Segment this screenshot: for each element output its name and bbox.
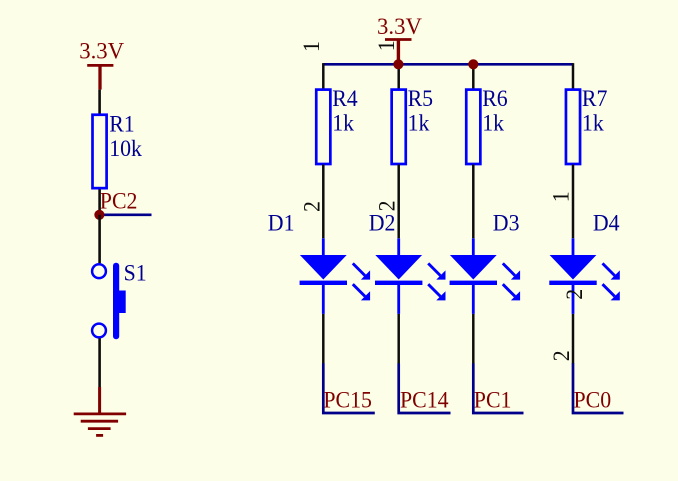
wire xyxy=(322,314,325,364)
wire xyxy=(99,213,151,216)
pin 1 of R6 xyxy=(472,64,475,89)
junction node PC2 xyxy=(94,210,104,220)
pin 1 of R7 xyxy=(572,63,575,89)
svg-text:1: 1 xyxy=(548,191,574,202)
svg-text:PC1: PC1 xyxy=(474,387,512,413)
svg-text:1k: 1k xyxy=(332,110,354,136)
svg-text:R1: R1 xyxy=(109,111,135,137)
svg-text:D1: D1 xyxy=(268,210,295,236)
svg-text:D3: D3 xyxy=(493,210,520,236)
pin 1 of R4 xyxy=(322,63,325,89)
wire xyxy=(472,314,475,364)
resistor R4 xyxy=(316,90,330,164)
power port 3.3V (left) xyxy=(87,65,113,89)
svg-text:2: 2 xyxy=(548,350,574,361)
pin 2 of R4 / wire xyxy=(322,165,325,239)
pin 1 of R5 xyxy=(397,64,400,89)
svg-text:R5: R5 xyxy=(408,85,434,111)
LED D1 xyxy=(300,238,371,314)
junction node xyxy=(468,59,478,69)
svg-text:D2: D2 xyxy=(369,210,396,236)
wire xyxy=(473,363,523,413)
junction node xyxy=(393,59,403,69)
svg-text:2: 2 xyxy=(299,201,325,212)
wire xyxy=(98,215,101,263)
svg-text:1: 1 xyxy=(373,40,399,51)
wire (bus) xyxy=(323,63,573,66)
power port 3.3V (right) xyxy=(385,40,412,65)
svg-text:PC2: PC2 xyxy=(100,188,138,214)
resistor R6 xyxy=(466,90,480,164)
svg-text:1k: 1k xyxy=(408,110,430,136)
pin 2 of R6 / wire xyxy=(472,165,475,239)
wire xyxy=(397,314,400,364)
svg-text:1: 1 xyxy=(298,41,324,52)
wire xyxy=(323,363,375,413)
svg-text:PC0: PC0 xyxy=(574,387,612,413)
svg-text:3.3V: 3.3V xyxy=(79,38,124,64)
wire xyxy=(572,314,575,364)
svg-text:1k: 1k xyxy=(582,110,604,136)
svg-text:R4: R4 xyxy=(332,85,358,111)
svg-text:S1: S1 xyxy=(124,260,147,286)
wire xyxy=(98,90,101,115)
switch S1 xyxy=(92,263,126,340)
LED D3 xyxy=(450,238,520,314)
svg-text:D4: D4 xyxy=(593,210,620,236)
resistor R1 xyxy=(93,115,107,188)
LED D4 xyxy=(549,238,620,314)
resistor R5 xyxy=(392,90,406,164)
svg-text:PC14: PC14 xyxy=(400,387,449,413)
wire xyxy=(573,363,624,413)
pin 2 of R7 / wire xyxy=(572,165,575,239)
wire xyxy=(399,363,451,413)
ground xyxy=(74,387,126,435)
LED D2 xyxy=(375,238,446,314)
wire xyxy=(98,338,101,387)
svg-text:3.3V: 3.3V xyxy=(377,14,422,40)
pin 2 of R5 / wire xyxy=(397,165,400,239)
svg-text:2: 2 xyxy=(561,289,587,300)
resistor R7 xyxy=(566,90,580,164)
svg-text:PC15: PC15 xyxy=(323,387,372,413)
svg-text:10k: 10k xyxy=(109,135,142,161)
svg-text:R6: R6 xyxy=(482,85,508,111)
svg-text:1k: 1k xyxy=(482,110,504,136)
wire xyxy=(98,189,101,214)
svg-text:R7: R7 xyxy=(582,85,608,111)
